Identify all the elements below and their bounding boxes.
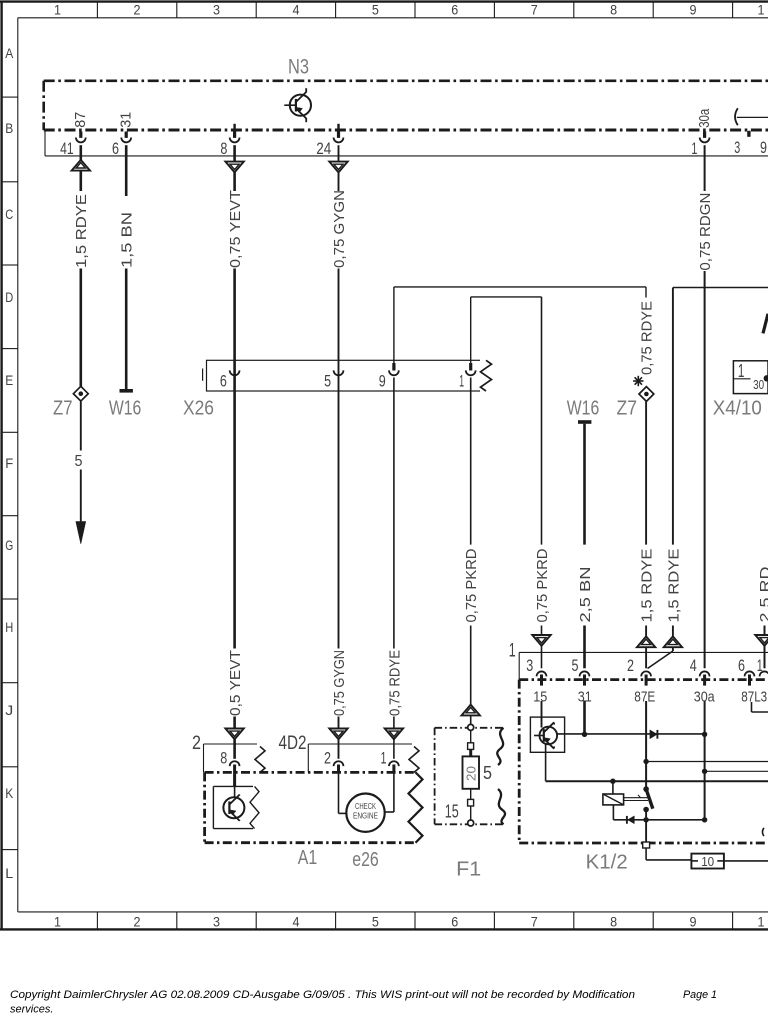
svg-text:F: F xyxy=(5,456,13,471)
svg-text:10: 10 xyxy=(701,854,714,869)
svg-text:K1/2: K1/2 xyxy=(586,852,628,874)
svg-text:G: G xyxy=(5,538,13,553)
wire to bottom terminal xyxy=(470,806,472,820)
4D2 pin 2 cup xyxy=(334,761,344,766)
svg-text:3: 3 xyxy=(213,914,220,929)
wire 24 upper segment xyxy=(338,145,340,161)
wire below label RDYE2 xyxy=(672,626,674,638)
svg-text:A1: A1 xyxy=(298,847,318,869)
svg-text:5: 5 xyxy=(572,657,579,675)
svg-text:1: 1 xyxy=(381,749,387,767)
junction dot 31/diode line xyxy=(582,732,587,737)
K1/2 pin 1 cup xyxy=(760,671,768,676)
svg-text:1: 1 xyxy=(54,3,61,18)
wire PKRD right branch down xyxy=(541,297,543,545)
wire 87E dot to off-page right xyxy=(646,761,768,763)
wire circle to square pin xyxy=(470,730,472,743)
junction dot RDGN / bottom line end xyxy=(702,817,707,822)
square pin through K1/2 bottom xyxy=(643,842,650,848)
wire 8 upper segment xyxy=(233,145,236,161)
svg-text:5: 5 xyxy=(324,373,331,391)
svg-text:2: 2 xyxy=(134,3,141,18)
svg-text:2: 2 xyxy=(324,749,331,767)
junction dot 87E / bottom line xyxy=(643,817,648,822)
N3 pin row bottom line xyxy=(45,155,768,157)
outer border bottom xyxy=(0,928,768,930)
N3 pin stub near 9 xyxy=(747,131,750,137)
K1/2 pin 2 cup xyxy=(641,671,651,676)
ground W16 left bar xyxy=(120,389,133,393)
connector arrow up at K1/2 pin 2 xyxy=(637,636,655,647)
wire 87E chain inside relay xyxy=(645,701,647,789)
wire RDYE2 down xyxy=(672,288,674,545)
wire 24 from label to X26 xyxy=(338,269,340,370)
wire RD to K1/2 pin 1 xyxy=(764,646,766,669)
K1/2 connector row top line xyxy=(519,651,768,653)
K1/2 pin 6 cup xyxy=(745,671,755,676)
svg-text:4D2: 4D2 xyxy=(279,733,307,754)
wire to K1/2 pin 2 cup xyxy=(645,647,647,668)
N3 pin 6 xyxy=(125,132,128,138)
svg-text:2: 2 xyxy=(627,657,634,675)
svg-text:41: 41 xyxy=(60,140,74,158)
A1 pin 8 stub xyxy=(233,765,236,787)
connector 4D2 top line xyxy=(308,743,412,745)
pin tip at X26 pin 1 xyxy=(469,363,472,371)
svg-text:9: 9 xyxy=(690,3,697,18)
svg-text:Z7: Z7 xyxy=(53,398,73,420)
A1 sub-box zigzag xyxy=(250,786,259,828)
svg-text:24: 24 xyxy=(316,140,331,158)
wire 6 upper segment xyxy=(125,145,128,196)
wire RD below label xyxy=(764,626,766,636)
wire below X26 pin 9 xyxy=(393,378,395,649)
relay coil box xyxy=(603,794,624,805)
svg-text:5: 5 xyxy=(483,763,492,783)
wire into A1 transistor xyxy=(234,786,236,797)
bottom grid ticks xyxy=(96,912,98,929)
svg-text:E: E xyxy=(5,373,13,388)
horizontal wire off-page to RDYE2 xyxy=(673,287,768,289)
svg-text:0,5 YEVT: 0,5 YEVT xyxy=(227,650,244,716)
inner frame top xyxy=(18,17,768,19)
wire coil bottom down xyxy=(612,805,614,820)
wire coil bottom to RDGN xyxy=(613,819,704,821)
resistor box 10 xyxy=(691,854,724,869)
svg-text:6: 6 xyxy=(112,140,119,158)
wire above 4D2 arrow xyxy=(338,717,340,730)
svg-text:K: K xyxy=(5,786,13,801)
wire 41 upper segment xyxy=(80,145,83,160)
wire stub from bridge down to RDYE label xyxy=(645,287,647,298)
svg-text:X26: X26 xyxy=(183,398,214,420)
svg-text:4: 4 xyxy=(293,3,300,18)
svg-text:1: 1 xyxy=(459,373,464,391)
svg-text:services.: services. xyxy=(10,1004,53,1016)
svg-text:N3: N3 xyxy=(288,56,309,79)
svg-text:2: 2 xyxy=(134,914,141,929)
wire 87E to box bottom xyxy=(645,810,647,844)
svg-text:7: 7 xyxy=(531,914,538,929)
fuse F1 dash-dot box top xyxy=(435,727,503,729)
wire 24 above label xyxy=(338,172,340,191)
wire below X26 pin 1 xyxy=(470,378,472,545)
tick above pin 24 xyxy=(337,124,339,129)
suppressor diode xyxy=(628,816,635,824)
svg-text:1,5 RDYE: 1,5 RDYE xyxy=(665,549,682,623)
svg-text:1,5 RDYE: 1,5 RDYE xyxy=(73,194,90,268)
svg-text:B: B xyxy=(5,121,13,136)
N3 pin row left closure xyxy=(44,130,46,156)
X26 pin 9 cup xyxy=(389,370,399,375)
wire below Z7 left xyxy=(80,401,82,450)
svg-text:0,75 RDYE: 0,75 RDYE xyxy=(386,650,403,716)
transistor inside A1 xyxy=(223,797,244,818)
connector 2pin break zigzag xyxy=(255,747,265,773)
svg-text:C: C xyxy=(5,207,13,222)
wire BN right down xyxy=(583,424,586,545)
connector arrow down above 4D2 pin 1 xyxy=(385,729,403,740)
connector arrow up above F1 xyxy=(462,705,480,716)
wire below label to arrow xyxy=(541,626,543,636)
relay actuator linkage xyxy=(624,797,648,799)
svg-text:1: 1 xyxy=(758,3,765,18)
svg-text:20: 20 xyxy=(464,766,479,781)
wire down into X26 pin 9 xyxy=(393,287,395,366)
fuse F1 right break wave top xyxy=(497,728,503,765)
wire 41 segment above label xyxy=(80,171,83,191)
connector arrow down RD wire xyxy=(755,635,768,646)
junction dot RDGN line2 xyxy=(702,769,707,774)
svg-text:L: L xyxy=(5,866,14,881)
ground W16 right bar xyxy=(578,420,591,424)
K1/2 pin 3 cup xyxy=(537,671,547,676)
wire RDGN dot to off-page right xyxy=(705,770,768,772)
svg-text:31: 31 xyxy=(119,112,135,128)
svg-text:W16: W16 xyxy=(109,398,142,420)
K1/2 transistor box xyxy=(530,717,564,752)
partial symbol right edge xyxy=(762,828,764,836)
X26 left edge tick xyxy=(202,369,204,381)
top grid ticks xyxy=(96,2,98,18)
cluster A1 dash-dot box bottom xyxy=(205,841,415,844)
svg-text:1: 1 xyxy=(757,657,763,675)
svg-text:ENGINE: ENGINE xyxy=(353,812,378,821)
svg-text:0,75 PKRD: 0,75 PKRD xyxy=(534,548,551,622)
svg-text:8: 8 xyxy=(610,3,617,18)
svg-text:W16: W16 xyxy=(567,398,600,420)
svg-text:0,75 GYGN: 0,75 GYGN xyxy=(331,650,348,716)
svg-text:5: 5 xyxy=(75,453,83,470)
N3 pin 41 xyxy=(79,132,82,138)
solid arrow end of wire 5 xyxy=(76,522,86,544)
junction dot 87E line xyxy=(643,759,648,764)
relay K1/2 dash-dot box bottom xyxy=(519,842,768,845)
svg-text:8: 8 xyxy=(220,140,227,158)
connector arrow down on wire 24 xyxy=(329,162,347,173)
N3 pin 8 xyxy=(233,132,236,138)
wire 87E below box xyxy=(645,848,647,860)
svg-text:87L3: 87L3 xyxy=(741,689,767,706)
wire transistor right to diode line xyxy=(557,733,705,735)
indicator lamp e26 circle xyxy=(346,794,384,832)
wire 6 lower segment xyxy=(125,269,128,390)
wire inside A1 to lamp right xyxy=(393,772,395,812)
wire above A1 arrow xyxy=(233,717,236,730)
fuse F1 dash-dot box bottom xyxy=(435,823,503,825)
connector sleeve Z7 diamond left xyxy=(73,386,88,401)
wire 31 stub thick xyxy=(583,701,586,735)
svg-text:5: 5 xyxy=(372,3,379,18)
K1/2 pin 6 stub xyxy=(748,675,751,686)
connector arrow down above K1/2 pin 3 xyxy=(532,635,550,646)
svg-text:1,5 RDYE: 1,5 RDYE xyxy=(639,549,656,623)
fuse F1 terminal circle top xyxy=(468,724,474,730)
K1/2 pin 2 stub xyxy=(645,675,648,686)
svg-text:0,75 YEVT: 0,75 YEVT xyxy=(227,190,244,268)
wire to resistor 10 xyxy=(646,859,691,861)
K1/2 pin 5 stub xyxy=(583,675,586,686)
connector 2pin top line xyxy=(204,743,258,745)
wire transistor bottom down xyxy=(545,745,547,782)
svg-text:15: 15 xyxy=(533,689,547,706)
svg-text:e26: e26 xyxy=(352,849,379,871)
svg-text:1: 1 xyxy=(691,140,697,158)
connector X26 box xyxy=(207,360,483,391)
svg-text:5: 5 xyxy=(372,914,379,929)
svg-text:H: H xyxy=(5,620,13,635)
X26 right break zigzag xyxy=(481,360,492,391)
svg-text:CHECK: CHECK xyxy=(355,802,376,811)
svg-text:2,5 BN: 2,5 BN xyxy=(577,567,594,623)
svg-text:6: 6 xyxy=(451,914,458,929)
wire arrow to F1 terminal xyxy=(470,715,472,724)
svg-text:0,75 PKRD: 0,75 PKRD xyxy=(463,548,480,622)
connector arrow up RDYE2 xyxy=(664,636,682,647)
relay switch pivot dot xyxy=(643,786,649,792)
svg-text:87: 87 xyxy=(73,112,89,128)
connector arrow down above 4D2 pin 2 xyxy=(329,729,347,740)
left grid ticks xyxy=(2,96,18,98)
svg-text:D: D xyxy=(5,290,13,305)
fuse element box xyxy=(463,756,480,788)
svg-text:9: 9 xyxy=(379,373,386,391)
cluster A1 break zigzag right xyxy=(409,772,423,842)
svg-text:4: 4 xyxy=(293,914,300,929)
svg-text:6: 6 xyxy=(220,373,227,391)
svg-text:6: 6 xyxy=(738,657,745,675)
X26 pin 1 cup xyxy=(466,370,476,375)
pin tip at X26 pin 9 xyxy=(392,363,395,371)
relay switch contact dot xyxy=(643,807,649,813)
connector arrow up on wire 41 xyxy=(72,160,90,171)
inner frame bottom xyxy=(18,911,768,913)
relay K1/2 dash-dot box top xyxy=(519,678,768,681)
junction dot diode line / RDGN xyxy=(702,732,707,737)
control unit N3 dash-dot box bottom xyxy=(44,129,768,132)
square pin top of fuse xyxy=(468,743,474,750)
svg-text:0,75 RDYE: 0,75 RDYE xyxy=(638,301,655,375)
X4/10 terminal dot xyxy=(764,375,768,381)
4D2 pin 1 stub xyxy=(392,765,395,773)
wire RDGN upper segment xyxy=(704,145,706,191)
svg-text:1: 1 xyxy=(54,914,61,929)
wire to A1 pin 8 cup xyxy=(233,739,236,759)
svg-text:Z7: Z7 xyxy=(617,398,638,420)
svg-text:3: 3 xyxy=(526,657,533,675)
fuse F1 dash-dot box left xyxy=(434,728,436,825)
svg-text:Page 1: Page 1 xyxy=(683,989,717,1001)
wire 8 above label xyxy=(233,172,236,191)
svg-text:30: 30 xyxy=(753,378,764,392)
wire below fuse xyxy=(470,789,472,800)
svg-text:9: 9 xyxy=(760,139,767,157)
svg-text:3: 3 xyxy=(734,139,740,157)
connector arrow down on wire 8 xyxy=(225,162,243,173)
fuse F1 right break wave bottom xyxy=(498,789,505,824)
wire through X26 pin 5 down xyxy=(338,370,340,649)
X26 pin 6 cup xyxy=(230,370,240,375)
wire dot to coil xyxy=(612,781,614,794)
relay K1/2 dash-dot box left xyxy=(518,680,521,843)
cluster A1 dash-dot box left xyxy=(203,772,206,842)
4D2 pin 1 cup xyxy=(389,761,399,766)
transistor symbol inside N3 xyxy=(290,95,311,116)
half-circle off-page symbol near pin 3 xyxy=(735,108,738,125)
wire below label xyxy=(645,626,647,638)
relay switch arm xyxy=(646,789,653,809)
N3 pin 24 xyxy=(337,132,340,138)
diagonal splice to pin 2 xyxy=(672,647,674,651)
connector arrow down above A1 pin 8 xyxy=(225,729,243,740)
svg-text:0,75 GYGN: 0,75 GYGN xyxy=(331,190,348,268)
outer border top xyxy=(0,0,768,2)
wire above F1 arrow xyxy=(470,626,472,705)
svg-text:1: 1 xyxy=(509,641,516,662)
wire from off-page to half-circle xyxy=(737,116,768,118)
svg-text:3: 3 xyxy=(213,3,220,18)
wire to K1/2 pin 3 cup xyxy=(541,646,543,669)
asterisk near Z7 right xyxy=(633,380,643,382)
svg-text:0,75 RDGN: 0,75 RDGN xyxy=(697,193,714,271)
wire above 4D2 pin1 arrow xyxy=(393,717,395,730)
square pin bottom of fuse xyxy=(468,799,474,806)
transistor inside K1/2 xyxy=(540,727,558,745)
wire 41 segment below label xyxy=(80,269,83,388)
control unit N3 dash-dot box top xyxy=(44,80,768,83)
wire below Z7 right xyxy=(645,402,647,545)
svg-text:X4/10: X4/10 xyxy=(713,398,762,420)
wire resistor to off-page xyxy=(724,860,768,862)
fuse F1 terminal circle bottom xyxy=(468,820,474,826)
svg-text:30a: 30a xyxy=(697,108,713,128)
outer border left xyxy=(0,1,2,931)
K1/2 pin 4 stub xyxy=(703,675,706,686)
connector 4D2 break zigzag xyxy=(409,747,419,773)
partial glyph at page edge xyxy=(763,314,768,334)
svg-text:2,5 RD: 2,5 RD xyxy=(757,566,768,622)
K1/2 pin 4 cup xyxy=(700,671,710,676)
pin 6 wire 87L3 down and right xyxy=(751,702,753,712)
wire RDGN long segment xyxy=(704,271,706,668)
horizontal wire X26 pin1 bridge xyxy=(471,296,542,298)
A1 transistor sub-box xyxy=(213,785,253,787)
svg-text:1: 1 xyxy=(758,914,765,929)
X26 pin 5 cup xyxy=(334,370,344,375)
tick above pin 8 xyxy=(233,124,235,129)
svg-text:F1: F1 xyxy=(456,859,481,881)
svg-text:15: 15 xyxy=(445,802,459,822)
K1/2 pin 3 stub xyxy=(540,675,543,686)
wire horizontal to coil and off-page xyxy=(546,780,768,782)
svg-text:1: 1 xyxy=(738,361,745,381)
wire below 5 label xyxy=(80,470,82,523)
svg-text:87E: 87E xyxy=(634,689,655,706)
wire down into X26 pin 1 xyxy=(470,297,472,366)
cluster A1 dash-dot box top xyxy=(205,771,415,774)
svg-text:8: 8 xyxy=(610,914,617,929)
wire to 4D2 pin 2 cup xyxy=(338,739,340,759)
svg-text:30a: 30a xyxy=(694,689,716,706)
relay coil diagonal xyxy=(603,794,624,805)
connector X4/10 box xyxy=(733,361,768,394)
thick stub into fuse xyxy=(469,749,472,756)
svg-text:J: J xyxy=(5,703,13,718)
svg-text:2: 2 xyxy=(192,733,201,754)
svg-text:9: 9 xyxy=(690,914,697,929)
A1 pin 8 cup xyxy=(230,761,240,766)
wire 8 from label to X26 xyxy=(233,269,236,370)
svg-text:7: 7 xyxy=(531,3,538,18)
wire below BN label xyxy=(583,626,586,669)
svg-text:1,5 BN: 1,5 BN xyxy=(118,212,135,268)
wire 30a inside relay xyxy=(704,701,706,820)
wire to 4D2 pin 1 cup xyxy=(393,739,395,759)
control unit N3 dash-dot box left xyxy=(42,81,45,130)
K1/2 pin 5 cup xyxy=(580,671,590,676)
junction dot above coil xyxy=(610,779,615,784)
4D2 pin 2 stub xyxy=(337,765,340,773)
wire pin15 to transistor box xyxy=(541,701,543,717)
connector sleeve Z7 diamond right xyxy=(639,387,654,402)
horizontal wire X26 pin9 to Z7 right xyxy=(394,286,646,288)
svg-text:8: 8 xyxy=(220,749,227,767)
diode on line to 30a xyxy=(650,730,657,739)
wire into transistor xyxy=(541,717,543,727)
svg-text:6: 6 xyxy=(451,3,458,18)
inner frame left xyxy=(17,18,19,912)
svg-text:4: 4 xyxy=(690,657,697,675)
svg-text:Copyright DaimlerChrysler AG: Copyright DaimlerChrysler AG 02.08.2009 … xyxy=(10,989,635,1001)
wire through X26 pin 6 down xyxy=(233,370,236,649)
N3 pin 1 xyxy=(703,132,706,138)
wire inside A1 to lamp left xyxy=(338,772,340,813)
svg-text:A: A xyxy=(5,46,13,61)
X4/10 internal divider xyxy=(733,378,750,380)
